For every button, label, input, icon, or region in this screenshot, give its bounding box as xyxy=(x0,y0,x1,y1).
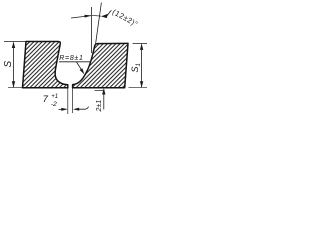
left plate outline xyxy=(23,42,68,88)
gap dim: right arrow with tail xyxy=(73,108,79,111)
dimension S: extension lines xyxy=(4,42,26,88)
svg-text:R=8±1: R=8±1 xyxy=(59,55,83,62)
gap dim: extension lines xyxy=(68,88,73,114)
angle dim: right arrow with curved tail xyxy=(101,14,108,18)
svg-text:2±1: 2±1 xyxy=(96,100,103,113)
root face dim 2±1: dimension line xyxy=(103,89,105,110)
svg-text:(12±2)°: (12±2)° xyxy=(111,7,140,28)
dimension S1: extension lines xyxy=(129,43,148,87)
right plate body xyxy=(73,43,128,87)
angle dim: slanted bevel extension line xyxy=(96,3,102,44)
svg-text:S: S xyxy=(3,61,14,68)
dimension S1: bottom arrow xyxy=(140,81,143,87)
angle dim: chord between extension lines xyxy=(92,14,101,17)
R dim: leader arrow to radius xyxy=(77,62,84,73)
dimension S: top arrow xyxy=(12,42,15,48)
root face dim: tick xyxy=(95,90,104,92)
svg-text:+1: +1 xyxy=(51,94,58,100)
right plate outline xyxy=(73,43,128,87)
dimension S: bottom arrow xyxy=(12,81,15,87)
dimension S: dimension line xyxy=(13,43,15,88)
gap dim: left arrow xyxy=(59,108,67,110)
svg-text:S1: S1 xyxy=(130,63,142,72)
dimension S1: top arrow xyxy=(140,44,143,50)
dimension S1: dimension line xyxy=(141,44,143,87)
angle dim: vertical extension line xyxy=(91,7,93,53)
root face dim: up arrow xyxy=(102,88,105,94)
angle dim: left leader with arrow xyxy=(71,16,91,18)
left plate body xyxy=(23,42,68,88)
R dim: shelf underline xyxy=(59,61,91,63)
svg-text:-2: -2 xyxy=(51,101,57,108)
svg-text:7: 7 xyxy=(43,94,49,105)
